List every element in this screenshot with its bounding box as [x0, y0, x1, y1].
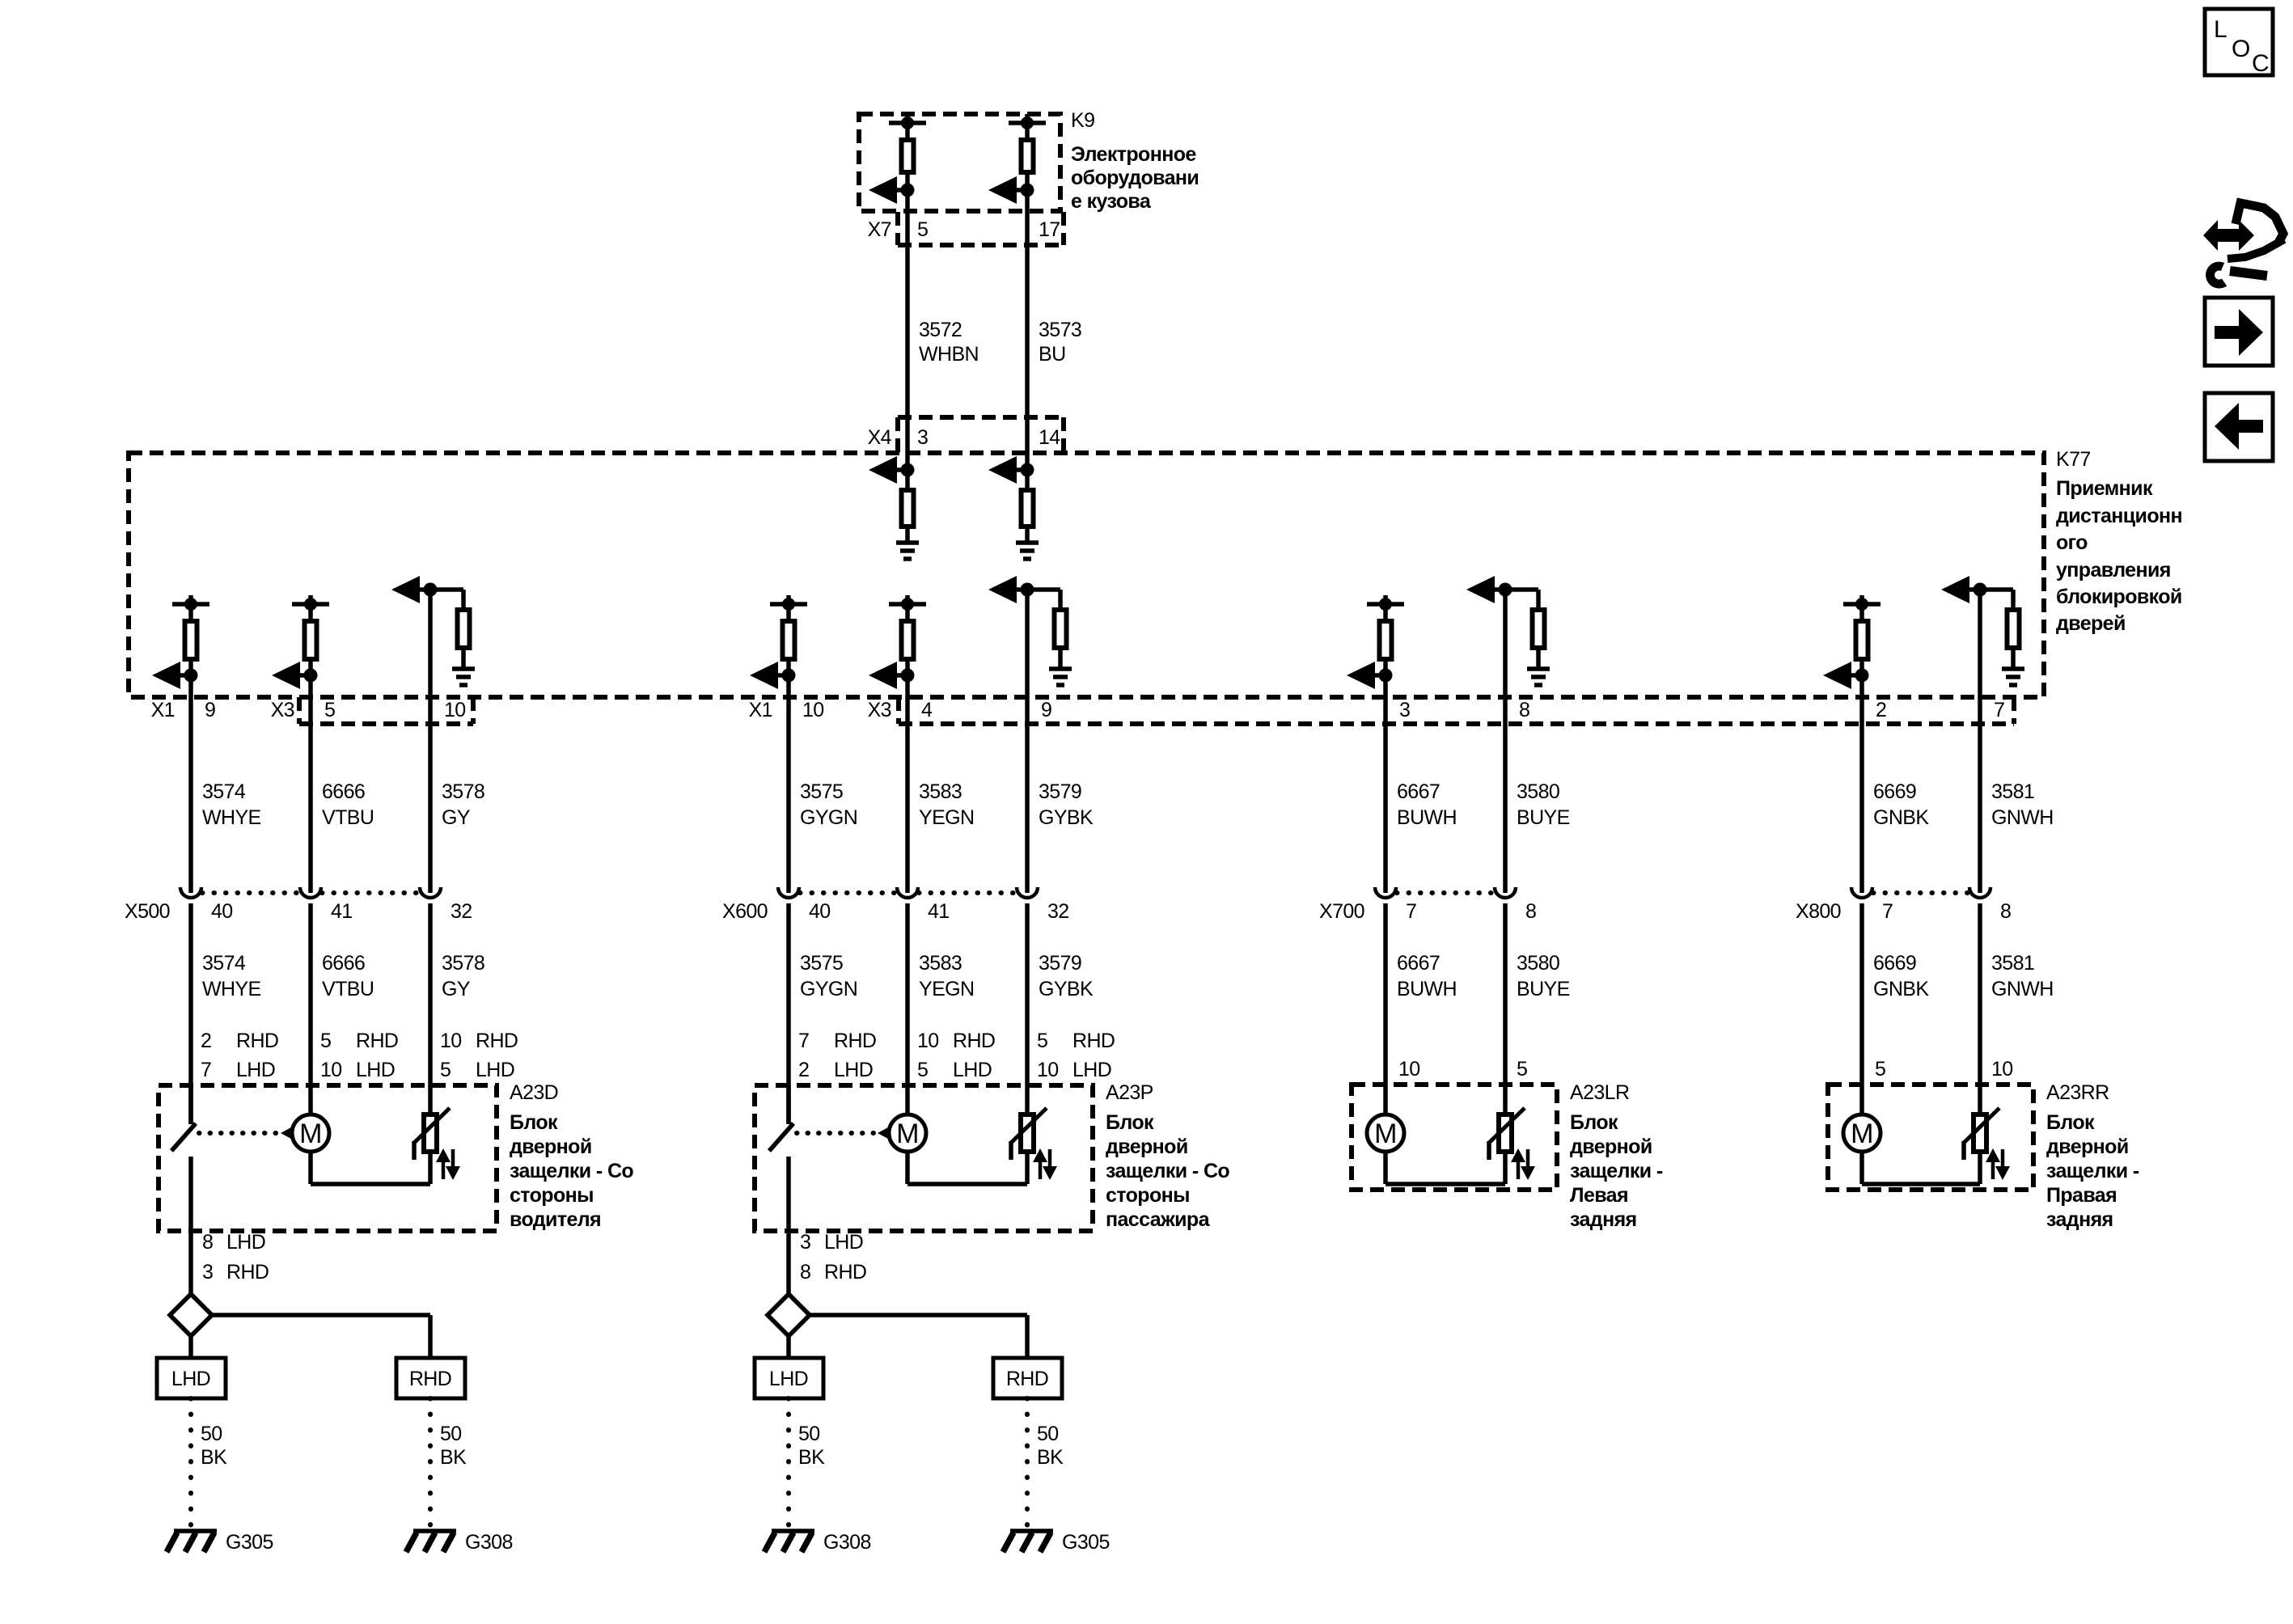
K77 name label [2056, 477, 2182, 635]
motor wiring inside A23RR [1862, 1151, 1980, 1184]
svg-text:8: 8 [1519, 699, 1529, 721]
body control module K9 box [859, 114, 1060, 211]
svg-text:BK: BK [798, 1446, 825, 1469]
svg-text:10: 10 [802, 699, 824, 721]
svg-text:водителя: водителя [510, 1208, 601, 1231]
wire 3580 BUYE label (lower) [1517, 952, 1570, 1000]
wire 3580 BUYE from K77 to X700 [1503, 590, 1508, 893]
wire 6669 GNBK label (lower) [1873, 952, 1929, 1000]
svg-text:Электронное: Электронное [1071, 143, 1196, 166]
svg-text:дистанционн: дистанционн [2056, 505, 2182, 527]
wire 6669 GNBK from K77 to X800 [1859, 675, 1864, 893]
svg-text:G305: G305 [1062, 1531, 1110, 1554]
A23RR pin 5 [1875, 1058, 1885, 1081]
K77 output with pull resistor to ground for A23D [391, 576, 475, 685]
K77 output driver (lock) for A23RR [1823, 595, 1881, 689]
svg-text:K9: K9 [1071, 109, 1094, 132]
svg-text:X800: X800 [1796, 900, 1841, 923]
svg-text:X3: X3 [868, 699, 891, 721]
wire 6666 VTBU label (upper) [322, 780, 374, 829]
lock actuator of A23D [414, 1108, 460, 1180]
svg-text:2: 2 [798, 1059, 809, 1081]
ground wire from A23P to splice [786, 1231, 791, 1294]
svg-text:дверной: дверной [510, 1136, 592, 1158]
X1 pin 10 [802, 699, 824, 721]
svg-text:RHD: RHD [356, 1030, 398, 1052]
X3 pin 9 [1041, 699, 1051, 721]
lock motor M of A23P [889, 1114, 926, 1152]
door latch unit A23LR box [1352, 1085, 1557, 1190]
wire 3574 WHYE label (lower) [202, 952, 261, 1000]
svg-text:3578: 3578 [442, 780, 484, 803]
svg-text:5: 5 [324, 699, 335, 721]
wire 3572 WHBN from K9 X7-5 to K77 X4-3 [905, 190, 910, 470]
mechanical link (switch to motor) of A23D [199, 1127, 291, 1139]
svg-text:GYGN: GYGN [800, 978, 857, 1000]
wire 6666 VTBU from K77 to X500 [308, 675, 313, 893]
X700 pin 8 [1525, 900, 1536, 923]
svg-text:е кузова: е кузова [1071, 190, 1152, 213]
svg-text:LHD: LHD [226, 1231, 265, 1254]
wire 6667 BUWH label (upper) [1397, 780, 1457, 829]
svg-text:BK: BK [440, 1446, 467, 1469]
X3 pin 5 [324, 699, 335, 721]
svg-text:L: L [2214, 16, 2227, 43]
svg-text:X600: X600 [722, 900, 768, 923]
K77 pin 8 [1519, 699, 1529, 721]
svg-text:40: 40 [211, 900, 233, 923]
svg-text:14: 14 [1039, 426, 1060, 449]
wire 3580 BUYE from X700 to A23LR [1503, 903, 1508, 1112]
svg-text:GNWH: GNWH [1991, 978, 2054, 1000]
X500 pin 41 [331, 900, 353, 923]
connector X1 label [151, 699, 175, 721]
svg-text:7: 7 [1994, 699, 2004, 721]
lock motor M of A23LR [1367, 1114, 1404, 1152]
connector X800 label [1796, 900, 1841, 923]
svg-text:C: C [2252, 50, 2269, 77]
svg-text:40: 40 [809, 900, 831, 923]
inline connector X600 [778, 887, 1038, 898]
connector X500 label [125, 900, 170, 923]
svg-text:3580: 3580 [1517, 952, 1559, 975]
svg-text:50: 50 [201, 1423, 222, 1445]
K77 designator label [2056, 448, 2091, 471]
door latch unit A23P box [755, 1085, 1093, 1231]
LHD option box [157, 1358, 226, 1398]
svg-text:5: 5 [1517, 1058, 1527, 1081]
svg-text:50: 50 [440, 1423, 462, 1445]
svg-text:8: 8 [1525, 900, 1536, 923]
X3 pin 10 [444, 699, 466, 721]
A23P pin 7 RHD label [798, 1030, 876, 1052]
svg-text:10: 10 [440, 1030, 462, 1052]
svg-text:стороны: стороны [1106, 1184, 1190, 1207]
LOC legend box [2205, 9, 2273, 77]
svg-text:стороны: стороны [510, 1184, 594, 1207]
svg-text:GYBK: GYBK [1039, 978, 1094, 1000]
RHD option box [396, 1358, 465, 1398]
svg-text:5: 5 [917, 1059, 928, 1081]
A23P designator label [1106, 1081, 1153, 1104]
motor wiring inside A23D [311, 1151, 430, 1184]
svg-text:защелки -: защелки - [1570, 1160, 1663, 1182]
lock actuator of A23P [1011, 1108, 1057, 1180]
svg-text:пассажира: пассажира [1106, 1208, 1211, 1231]
A23P pin 5 RHD label [1037, 1030, 1115, 1052]
K77 output with pull resistor to ground for A23P [988, 576, 1072, 685]
svg-text:LHD: LHD [236, 1059, 275, 1081]
svg-text:6669: 6669 [1873, 780, 1916, 803]
svg-text:LHD: LHD [824, 1231, 863, 1254]
svg-text:Блок: Блок [1106, 1111, 1154, 1134]
connector X600 label [722, 900, 768, 923]
svg-text:RHD: RHD [236, 1030, 278, 1052]
svg-text:VTBU: VTBU [322, 806, 374, 829]
svg-text:3583: 3583 [919, 952, 962, 975]
svg-text:3580: 3580 [1517, 780, 1559, 803]
svg-text:WHYE: WHYE [202, 806, 261, 829]
svg-text:3572: 3572 [919, 319, 962, 341]
K77 output driver (motor) for A23P [869, 595, 926, 689]
svg-text:задняя: задняя [1570, 1208, 1637, 1231]
svg-text:10: 10 [320, 1059, 342, 1081]
K9 designator label [1071, 109, 1094, 132]
svg-text:дверной: дверной [2046, 1136, 2129, 1158]
arrow-left legend box [2205, 393, 2273, 461]
wire 50 BK label (RHD) [1037, 1423, 1064, 1469]
A23RR pin 10 [1991, 1058, 2013, 1081]
svg-text:M: M [1374, 1119, 1397, 1149]
svg-text:LHD: LHD [356, 1059, 395, 1081]
wire 6669 GNBK from X800 to A23RR [1859, 903, 1864, 1115]
svg-text:RHD: RHD [1072, 1030, 1115, 1052]
connector X3 label [868, 699, 891, 721]
wire 3573 BU from K9 X7-17 to K77 X4-14 [1025, 190, 1030, 470]
svg-text:BUWH: BUWH [1397, 806, 1457, 829]
RHD option box [993, 1358, 1062, 1398]
svg-text:A23P: A23P [1106, 1081, 1153, 1104]
connector X1 label [749, 699, 772, 721]
X800 pin 7 [1882, 900, 1893, 923]
svg-text:3: 3 [800, 1231, 810, 1254]
svg-text:GYGN: GYGN [800, 806, 857, 829]
A23D pin 2 RHD label [201, 1030, 278, 1052]
wire 3581 GNWH label (lower) [1991, 952, 2054, 1000]
svg-text:32: 32 [451, 900, 472, 923]
A23P name label [1106, 1111, 1229, 1231]
svg-text:GY: GY [442, 978, 471, 1000]
lock motor M of A23D [292, 1114, 329, 1152]
wire 3583 YEGN from X600 to A23P [905, 903, 910, 1115]
svg-text:3583: 3583 [919, 780, 962, 803]
svg-text:X4: X4 [868, 426, 892, 449]
lock actuator of A23RR [1964, 1108, 2010, 1180]
svg-text:GNWH: GNWH [1991, 806, 2054, 829]
K77 pin 3 [1399, 699, 1410, 721]
K9 internal driver output node at x=1270 [988, 114, 1046, 204]
svg-text:8: 8 [800, 1261, 810, 1284]
svg-text:YEGN: YEGN [919, 806, 974, 829]
svg-text:3: 3 [917, 426, 928, 449]
door latch unit A23D box [159, 1085, 497, 1231]
wire 6666 VTBU from X500 to A23D [308, 903, 313, 1115]
A23D ground pin 3 RHD label [202, 1261, 269, 1284]
svg-text:LHD: LHD [1072, 1059, 1111, 1081]
A23P pin 10 LHD label [1037, 1059, 1111, 1081]
inline connector X500 [180, 887, 441, 898]
K77 output driver (motor) for A23D [272, 595, 329, 689]
wire 3575 GYGN label (lower) [800, 952, 857, 1000]
svg-text:блокировкой: блокировкой [2056, 586, 2182, 608]
svg-text:10: 10 [444, 699, 466, 721]
svg-text:защелки - Со: защелки - Со [1106, 1160, 1229, 1182]
svg-text:RHD: RHD [476, 1030, 518, 1052]
connector X4 label [868, 426, 892, 449]
svg-text:3575: 3575 [800, 780, 843, 803]
svg-text:BUYE: BUYE [1517, 806, 1570, 829]
arrow-right legend box [2205, 298, 2273, 366]
wire 3575 GYGN from X600 to A23P [786, 903, 791, 1124]
A23LR name label [1570, 1111, 1663, 1231]
A23RR name label [2046, 1111, 2139, 1231]
X500 pin 40 [211, 900, 233, 923]
A23D pin 7 LHD label [201, 1059, 275, 1081]
svg-text:6666: 6666 [322, 780, 365, 803]
wire 3575 GYGN from K77 to X600 [786, 675, 791, 893]
svg-text:задняя: задняя [2046, 1208, 2113, 1231]
svg-text:3: 3 [202, 1261, 213, 1284]
wire 6667 BUWH label (lower) [1397, 952, 1457, 1000]
svg-text:7: 7 [1406, 900, 1416, 923]
svg-text:LHD: LHD [769, 1368, 808, 1390]
svg-text:X700: X700 [1319, 900, 1364, 923]
svg-text:G308: G308 [465, 1531, 513, 1554]
svg-text:RHD: RHD [824, 1261, 866, 1284]
svg-text:50: 50 [1037, 1423, 1059, 1445]
wire 3574 WHYE from X500 to A23D [188, 903, 193, 1124]
K77 internal input termination to ground at x=1122 [869, 456, 915, 543]
svg-text:3: 3 [1399, 699, 1410, 721]
svg-text:7: 7 [201, 1059, 211, 1081]
svg-text:BUYE: BUYE [1517, 978, 1570, 1000]
svg-text:10: 10 [1398, 1058, 1420, 1081]
wire 50 BK label (LHD) [201, 1423, 227, 1469]
K77 pin 2 [1876, 699, 1886, 721]
wire 3578 GY label (lower) [442, 952, 484, 1000]
X500 pin 32 [451, 900, 472, 923]
svg-text:50: 50 [798, 1423, 820, 1445]
ground (K77 internal) [1016, 543, 1039, 559]
A23D pin 10 RHD label [440, 1030, 518, 1052]
svg-text:LHD: LHD [476, 1059, 514, 1081]
svg-text:A23RR: A23RR [2046, 1081, 2109, 1104]
lock status switch of A23P [769, 1085, 793, 1231]
svg-text:LHD: LHD [953, 1059, 992, 1081]
svg-text:Приемник: Приемник [2056, 477, 2153, 500]
svg-text:3574: 3574 [202, 952, 246, 975]
remote door lock receiver K77 box [129, 453, 2044, 697]
X600 pin 41 [928, 900, 950, 923]
svg-text:6667: 6667 [1397, 952, 1440, 975]
A23D pin 5 LHD label [440, 1059, 514, 1081]
svg-text:5: 5 [320, 1030, 331, 1052]
svg-text:BUWH: BUWH [1397, 978, 1457, 1000]
svg-text:10: 10 [1991, 1058, 2013, 1081]
ground G308 [406, 1531, 513, 1554]
svg-text:защелки - Со: защелки - Со [510, 1160, 633, 1182]
svg-text:X7: X7 [868, 218, 891, 241]
svg-text:A23LR: A23LR [1570, 1081, 1629, 1104]
inline connector X700 [1375, 887, 1516, 898]
connector X4 of K77 [898, 417, 1064, 452]
K77 output driver (lock) for A23D [152, 595, 209, 689]
K77 output with pull resistor to ground for A23LR [1466, 576, 1550, 685]
svg-text:BK: BK [201, 1446, 227, 1469]
wire 3580 BUYE label (upper) [1517, 780, 1570, 829]
wire 3581 GNWH from K77 to X800 [1978, 590, 1982, 893]
svg-text:M: M [1851, 1119, 1873, 1149]
svg-text:RHD: RHD [226, 1261, 269, 1284]
wire 3583 YEGN label (upper) [919, 780, 974, 829]
svg-text:41: 41 [331, 900, 353, 923]
wire 50 BK (LHD) [188, 1398, 193, 1527]
svg-text:3575: 3575 [800, 952, 843, 975]
wire splice to LHD box [188, 1336, 193, 1358]
svg-text:BK: BK [1037, 1446, 1064, 1469]
A23P pin 10 RHD label [917, 1030, 995, 1052]
X4 pin 3 [917, 426, 928, 449]
wire splice to LHD box [786, 1336, 791, 1358]
splice node of A23P ground [768, 1294, 810, 1336]
splice node of A23D ground [170, 1294, 212, 1336]
svg-text:4: 4 [921, 699, 933, 721]
svg-text:M: M [896, 1119, 919, 1149]
svg-text:RHD: RHD [953, 1030, 995, 1052]
svg-text:LHD: LHD [171, 1368, 210, 1390]
svg-text:3581: 3581 [1991, 780, 2034, 803]
A23P pin 5 LHD label [917, 1059, 992, 1081]
A23RR designator label [2046, 1081, 2109, 1104]
LHD option box [755, 1358, 823, 1398]
svg-text:8: 8 [202, 1231, 213, 1254]
svg-text:G305: G305 [226, 1531, 273, 1554]
svg-text:9: 9 [1041, 699, 1051, 721]
wire 3579 GYBK from X600 to A23P [1025, 903, 1030, 1112]
svg-text:3573: 3573 [1039, 319, 1081, 341]
wire 3579 GYBK from K77 to X600 [1025, 590, 1030, 893]
inline connector X800 [1851, 887, 1991, 898]
K9 name label [1071, 143, 1199, 213]
wire 6667 BUWH from K77 to X700 [1383, 675, 1388, 893]
K77 output driver (lock) for A23LR [1347, 595, 1404, 689]
A23LR pin 5 [1517, 1058, 1527, 1081]
svg-text:3578: 3578 [442, 952, 484, 975]
svg-text:Блок: Блок [510, 1111, 558, 1134]
wire 3579 GYBK label (lower) [1039, 952, 1094, 1000]
svg-text:M: M [299, 1119, 322, 1149]
A23LR designator label [1570, 1081, 1629, 1104]
wire 3581 GNWH label (upper) [1991, 780, 2054, 829]
mechanical link (switch to motor) of A23P [797, 1127, 888, 1139]
lock motor M of A23RR [1843, 1114, 1881, 1152]
connector X7 label [868, 218, 891, 241]
svg-text:WHYE: WHYE [202, 978, 261, 1000]
harness routing icon [2203, 203, 2284, 284]
ground wire from A23D to splice [188, 1231, 193, 1294]
wire 3578 GY from K77 to X500 [428, 590, 433, 893]
K77 output driver (lock) for A23P [750, 595, 807, 689]
connector X3 label [271, 699, 294, 721]
ground (K77 internal) [896, 543, 919, 559]
svg-text:6667: 6667 [1397, 780, 1440, 803]
K77 output with pull resistor to ground for A23RR [1941, 576, 2024, 685]
svg-text:3579: 3579 [1039, 952, 1081, 975]
wire 3581 GNWH from X800 to A23RR [1978, 903, 1982, 1112]
svg-text:управления: управления [2056, 559, 2171, 582]
svg-text:X3: X3 [271, 699, 294, 721]
A23D name label [510, 1111, 633, 1231]
svg-text:O: O [2232, 36, 2250, 62]
wire 3573 BU label [1039, 319, 1081, 366]
X600 pin 40 [809, 900, 831, 923]
svg-text:6666: 6666 [322, 952, 365, 975]
svg-text:5: 5 [1037, 1030, 1047, 1052]
svg-text:10: 10 [917, 1030, 939, 1052]
X4 pin 14 [1039, 426, 1060, 449]
A23D ground pin 8 LHD label [202, 1231, 265, 1254]
svg-text:LHD: LHD [834, 1059, 873, 1081]
svg-text:RHD: RHD [409, 1368, 451, 1390]
svg-text:41: 41 [928, 900, 950, 923]
wire 3574 WHYE from K77 to X500 [188, 675, 193, 893]
lock status switch of A23D [171, 1085, 196, 1231]
wire 6669 GNBK label (upper) [1873, 780, 1929, 829]
svg-text:6669: 6669 [1873, 952, 1916, 975]
wire 50 BK label (LHD) [798, 1423, 825, 1469]
wire 3583 YEGN label (lower) [919, 952, 974, 1000]
svg-text:2: 2 [1876, 699, 1886, 721]
motor wiring inside A23P [907, 1151, 1027, 1184]
wire 50 BK (LHD) [786, 1398, 791, 1527]
A23P ground pin 8 RHD label [800, 1261, 866, 1284]
wire 6667 BUWH from X700 to A23LR [1383, 903, 1388, 1115]
svg-text:17: 17 [1039, 218, 1060, 241]
K9 internal driver output node at x=1122 [869, 114, 926, 204]
svg-text:GNBK: GNBK [1873, 806, 1929, 829]
svg-text:Блок: Блок [1570, 1111, 1618, 1134]
A23D pin 10 LHD label [320, 1059, 395, 1081]
svg-text:VTBU: VTBU [322, 978, 374, 1000]
X1 pin 9 [205, 699, 215, 721]
motor wiring inside A23LR [1386, 1151, 1505, 1184]
svg-text:дверей: дверей [2056, 612, 2126, 635]
svg-text:5: 5 [917, 218, 928, 241]
connector outline for rear/passenger door pins [899, 697, 2014, 724]
svg-text:YEGN: YEGN [919, 978, 974, 1000]
svg-text:8: 8 [2000, 900, 2011, 923]
svg-text:K77: K77 [2056, 448, 2091, 471]
wire 3574 WHYE label (upper) [202, 780, 261, 829]
X700 pin 7 [1406, 900, 1416, 923]
svg-text:дверной: дверной [1570, 1136, 1652, 1158]
svg-text:10: 10 [1037, 1059, 1059, 1081]
svg-text:RHD: RHD [834, 1030, 876, 1052]
svg-text:9: 9 [205, 699, 215, 721]
svg-text:GYBK: GYBK [1039, 806, 1094, 829]
connector X7 of K9 [898, 212, 1064, 245]
svg-text:3581: 3581 [1991, 952, 2034, 975]
